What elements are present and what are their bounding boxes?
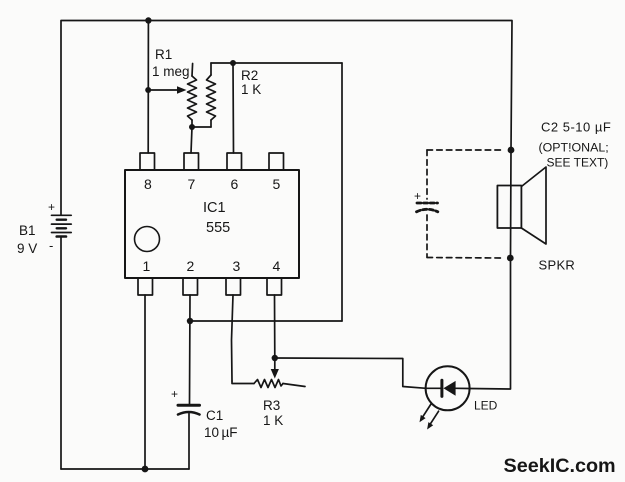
C1 value labels: [171, 387, 238, 440]
svg-text:C2 5-10 µF: C2 5-10 µF: [541, 120, 611, 135]
IC U1 555 body: [125, 170, 299, 278]
pin 8 top lead: [140, 153, 155, 170]
svg-text:C1: C1: [206, 408, 223, 423]
svg-text:+: +: [414, 189, 421, 203]
C2 value labels: [414, 120, 611, 204]
svg-text:4: 4: [273, 258, 281, 274]
pin 3 bottom lead: [226, 278, 241, 295]
svg-text:1 meg: 1 meg: [152, 64, 190, 79]
wire vertical drop x=342: [341, 63, 343, 321]
pin numbers bottom row: [143, 258, 281, 274]
svg-text:(OPT!ONAL;: (OPT!ONAL;: [539, 141, 609, 155]
svg-text:LED: LED: [474, 399, 498, 413]
wire horizontal y=321 from drop to pin 2: [190, 320, 342, 322]
pin 5 top lead (unconnected): [269, 153, 284, 170]
node junction pin-4 / LED feed / wiper arrow: [272, 355, 278, 361]
svg-text:7: 7: [188, 176, 196, 192]
node junction speaker bottom / C2 dashed return: [507, 255, 514, 262]
node junction top rail / R1 branch: [145, 17, 151, 23]
svg-text:1 K: 1 K: [241, 82, 261, 97]
node junction pin 2 wire / y=321 wire: [187, 318, 193, 324]
potentiometer R3 1 K (horizontal zigzag with tail): [232, 380, 305, 388]
wire pin 4 down to wiper junction: [274, 295, 276, 358]
svg-text:1 K: 1 K: [263, 413, 283, 428]
pin 4 bottom lead: [267, 278, 282, 295]
wire ground rail (bottom): [61, 468, 189, 470]
svg-text:6: 6: [231, 176, 239, 192]
pin 6 top lead: [227, 153, 242, 170]
node junction R1 bottom / pin 7: [189, 124, 195, 130]
svg-text:10µF: 10µF: [204, 425, 238, 440]
node junction R2-top wire / pin 6 branch: [230, 60, 236, 66]
svg-text:3: 3: [233, 258, 241, 274]
svg-text:IC1: IC1: [203, 200, 226, 216]
wire V+ top rail from battery + up, across top, down to speaker: [61, 21, 512, 216]
pin 2 bottom lead: [183, 278, 198, 295]
wire branch down to pin 6: [232, 63, 235, 153]
svg-text:555: 555: [206, 220, 230, 236]
svg-text:SeekIC.com: SeekIC.com: [504, 455, 616, 477]
pin 1 bottom lead: [138, 278, 153, 295]
svg-text:SPKR: SPKR: [539, 258, 576, 273]
LED emission arrows: [420, 404, 439, 430]
wire R1 bottom to pin 7: [191, 127, 192, 153]
wire vertical through speaker: [510, 150, 513, 258]
svg-text:+: +: [48, 200, 55, 214]
wire branch down from top rail to pin 8: [147, 21, 149, 154]
svg-text:5: 5: [273, 176, 281, 192]
svg-text:SEE TEXT): SEE TEXT): [547, 156, 609, 170]
LED (circle, cathode bar left, filled triangle): [426, 366, 470, 410]
R3 wiper arrow (down): [271, 358, 279, 379]
svg-text:2: 2: [187, 258, 195, 274]
capacitor C2 plates (dashed): [417, 203, 438, 212]
wire R1 wiper arrow: [148, 89, 179, 91]
battery B1 labels: [17, 200, 55, 256]
IC pin-1 index circle: [135, 227, 160, 252]
IC1 555 labels: [203, 200, 230, 236]
svg-text:R2: R2: [241, 68, 258, 83]
wire R2 top horizontal run to right-side drop: [211, 62, 342, 64]
svg-text:1: 1: [143, 258, 151, 274]
svg-text:8: 8: [144, 176, 152, 192]
R3 value labels: [263, 398, 283, 428]
speaker SPKR (rect + horn): [497, 167, 546, 244]
R2 value labels: [241, 68, 261, 97]
svg-text:9 V: 9 V: [17, 241, 37, 256]
wire from junction to LED left side: [275, 358, 426, 388]
node junction speaker top / C2 dashed feed: [508, 147, 515, 154]
resistor R1 1 meg (vertical zigzag with top stub): [188, 64, 197, 128]
wire pin 2 down to C1: [189, 295, 192, 404]
svg-text:B1: B1: [19, 223, 36, 238]
pin 7 top lead: [184, 153, 199, 170]
node junction pin-1 wire / ground rail: [142, 466, 149, 473]
capacitor C1 10uF (polarized): [178, 405, 200, 469]
svg-text:-: -: [49, 238, 53, 253]
wire pin 3 down to R3 left end: [232, 295, 234, 381]
svg-text:R3: R3: [263, 398, 280, 413]
R1 value labels: [152, 47, 190, 79]
wire battery negative lead: [60, 237, 62, 470]
capacitor C2 optional dashed branch: [427, 150, 504, 258]
battery B1 plates: [52, 215, 72, 236]
wire link R1 bottom to R2 bottom: [192, 126, 211, 128]
wire LED right side up to speaker branch: [470, 258, 511, 389]
svg-text:+: +: [171, 387, 178, 401]
wire pin 1 down to ground rail: [144, 295, 146, 469]
svg-text:R1: R1: [155, 47, 172, 62]
node junction wiper tap on pin-8 wire: [145, 87, 151, 93]
resistor R2 1 K (vertical zigzag): [207, 63, 216, 127]
pin numbers top row: [144, 176, 281, 192]
